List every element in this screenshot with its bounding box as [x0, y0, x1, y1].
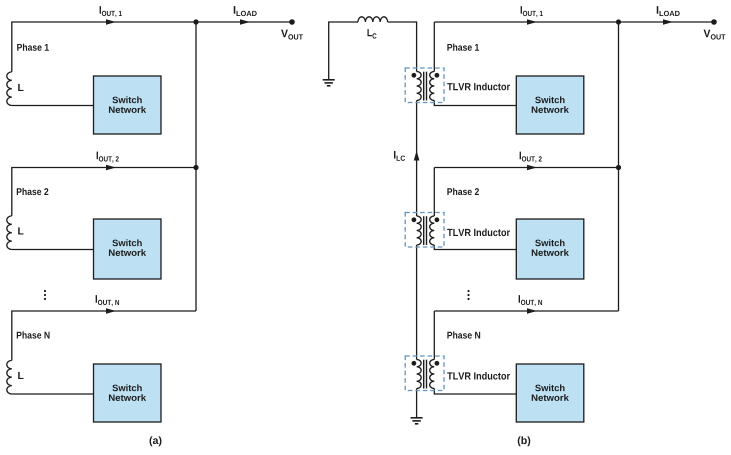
switch network box phase 1 (b): [516, 76, 584, 134]
label Phase N (b): [447, 331, 480, 338]
arrow I_OUT,2 (b): [527, 165, 537, 171]
inductor L_C (b): [358, 17, 388, 22]
label (b): [518, 436, 530, 446]
label L phase 2 (a): [18, 227, 23, 234]
wire phase N inductor to switch network (a): [12, 393, 94, 395]
network text phase 2 (b): [532, 249, 569, 256]
output bus (a): [195, 22, 197, 311]
label L phase 1 (a): [18, 84, 23, 91]
switch network text phase 2 (a): [112, 239, 141, 246]
wire phase 1 transformer to switch network (b): [434, 101, 516, 106]
junction dot phase 1 bus (b): [616, 19, 621, 24]
ellipsis dots (a): [44, 290, 46, 300]
label Phase 2 (b): [447, 188, 479, 195]
arrow I_OUT,N (b): [527, 308, 537, 314]
wire coupling bus transformer 2 to 3 (b): [416, 245, 418, 360]
label I_LOAD (a): [234, 6, 257, 16]
network text phase 1 (b): [532, 106, 569, 113]
wire phase 1 top rail (b): [434, 21, 618, 23]
arrow I_OUT,1 (b): [527, 19, 537, 25]
label TLVR Inductor phase 2 (b): [447, 229, 510, 237]
label L_C (b): [367, 29, 376, 38]
arrow I_LOAD (a): [240, 19, 250, 25]
network text phase N (b): [532, 394, 569, 401]
ground symbol bottom (b): [411, 418, 423, 424]
network text phase N (a): [109, 394, 146, 401]
label TLVR Inductor phase N (b): [447, 372, 510, 380]
label I_OUT,N (a): [96, 295, 119, 306]
wire L_C to coupling bus (b): [388, 22, 417, 72]
label I_OUT,2 (a): [97, 152, 119, 163]
arrow I_OUT,2 (a): [106, 165, 116, 171]
wire I_LOAD (a): [196, 21, 292, 23]
switch network text phase 2 (b): [535, 239, 564, 246]
switch network box phase 2 (b): [516, 219, 584, 279]
terminal dot V_OUT (a): [289, 19, 295, 25]
arrow I_OUT,1 (a): [106, 19, 116, 25]
switch network text phase N (a): [112, 384, 141, 391]
ground symbol left (b): [323, 80, 335, 86]
label I_LC (b): [394, 151, 405, 161]
TLVR transformer phase N (b): [405, 356, 444, 391]
label I_OUT,2 (b): [520, 152, 542, 163]
arrow I_LOAD (b): [663, 19, 673, 25]
output bus (b): [618, 22, 620, 311]
wire phase 2 top rail (b): [434, 167, 618, 169]
label I_OUT,1 (a): [100, 6, 122, 17]
wire phase 2 transformer to switch network (b): [434, 245, 516, 250]
wire phase 2 inductor to switch network (a): [12, 249, 94, 251]
switch network text phase N (b): [535, 384, 564, 391]
switch network box phase 1 (a): [94, 76, 162, 134]
label V_OUT (b): [704, 30, 726, 40]
inductor L phase N (a): [7, 360, 12, 394]
label I_OUT,N (b): [519, 295, 542, 306]
wire phase N top rail (b): [434, 310, 618, 312]
inductor L phase 2 (a): [7, 216, 12, 250]
arrow I_OUT,N (a): [106, 308, 116, 314]
wire phase 1 drop to transformer (b): [433, 22, 435, 72]
switch network box phase N (b): [516, 364, 584, 422]
wire phase N drop to transformer (b): [433, 311, 435, 360]
wire phase 2 drop to transformer (b): [433, 168, 435, 217]
wire phase 1 inductor to switch network (a): [12, 105, 94, 107]
ellipsis dots (b): [467, 290, 469, 300]
wire I_LOAD (b): [619, 21, 715, 23]
wire phase 2 top rail (a): [12, 168, 196, 216]
switch network box phase N (a): [94, 364, 162, 422]
label I_LOAD (b): [657, 6, 680, 16]
wire coupling bus transformer 1 to 2 (b): [416, 101, 418, 217]
network text phase 1 (a): [109, 106, 146, 113]
label (a): [150, 436, 162, 446]
terminal dot V_OUT (b): [711, 19, 717, 25]
junction dot phase 2 bus (a): [193, 165, 198, 170]
wire ground branch to L_C (b): [329, 22, 358, 80]
label Phase 1 (a): [17, 44, 49, 51]
inductor L phase 1 (a): [7, 72, 12, 106]
label Phase 1 (b): [447, 44, 479, 51]
junction dot phase 2 bus (b): [616, 165, 621, 170]
junction dot phase 1 bus (a): [193, 19, 198, 24]
label L phase N (a): [18, 372, 23, 379]
network text phase 2 (a): [109, 249, 146, 256]
label TLVR Inductor phase 1 (b): [447, 83, 510, 91]
switch network text phase 1 (a): [112, 96, 141, 103]
label V_OUT (a): [281, 30, 303, 40]
TLVR transformer phase 2 (b): [405, 213, 444, 248]
switch network box phase 2 (a): [94, 219, 162, 279]
label I_OUT,1 (b): [521, 6, 543, 17]
wire phase N top rail (a): [12, 311, 196, 360]
label Phase N (a): [17, 331, 50, 338]
switch network text phase 1 (b): [535, 96, 564, 103]
wire coupling bus to ground (b): [416, 389, 418, 418]
wire phase N transformer to switch network (b): [434, 389, 516, 395]
arrow I_LC up (b): [414, 151, 420, 161]
label Phase 2 (a): [17, 188, 49, 195]
TLVR transformer phase 1 (b): [405, 68, 444, 103]
wire phase 1 top rail (a): [12, 22, 196, 72]
